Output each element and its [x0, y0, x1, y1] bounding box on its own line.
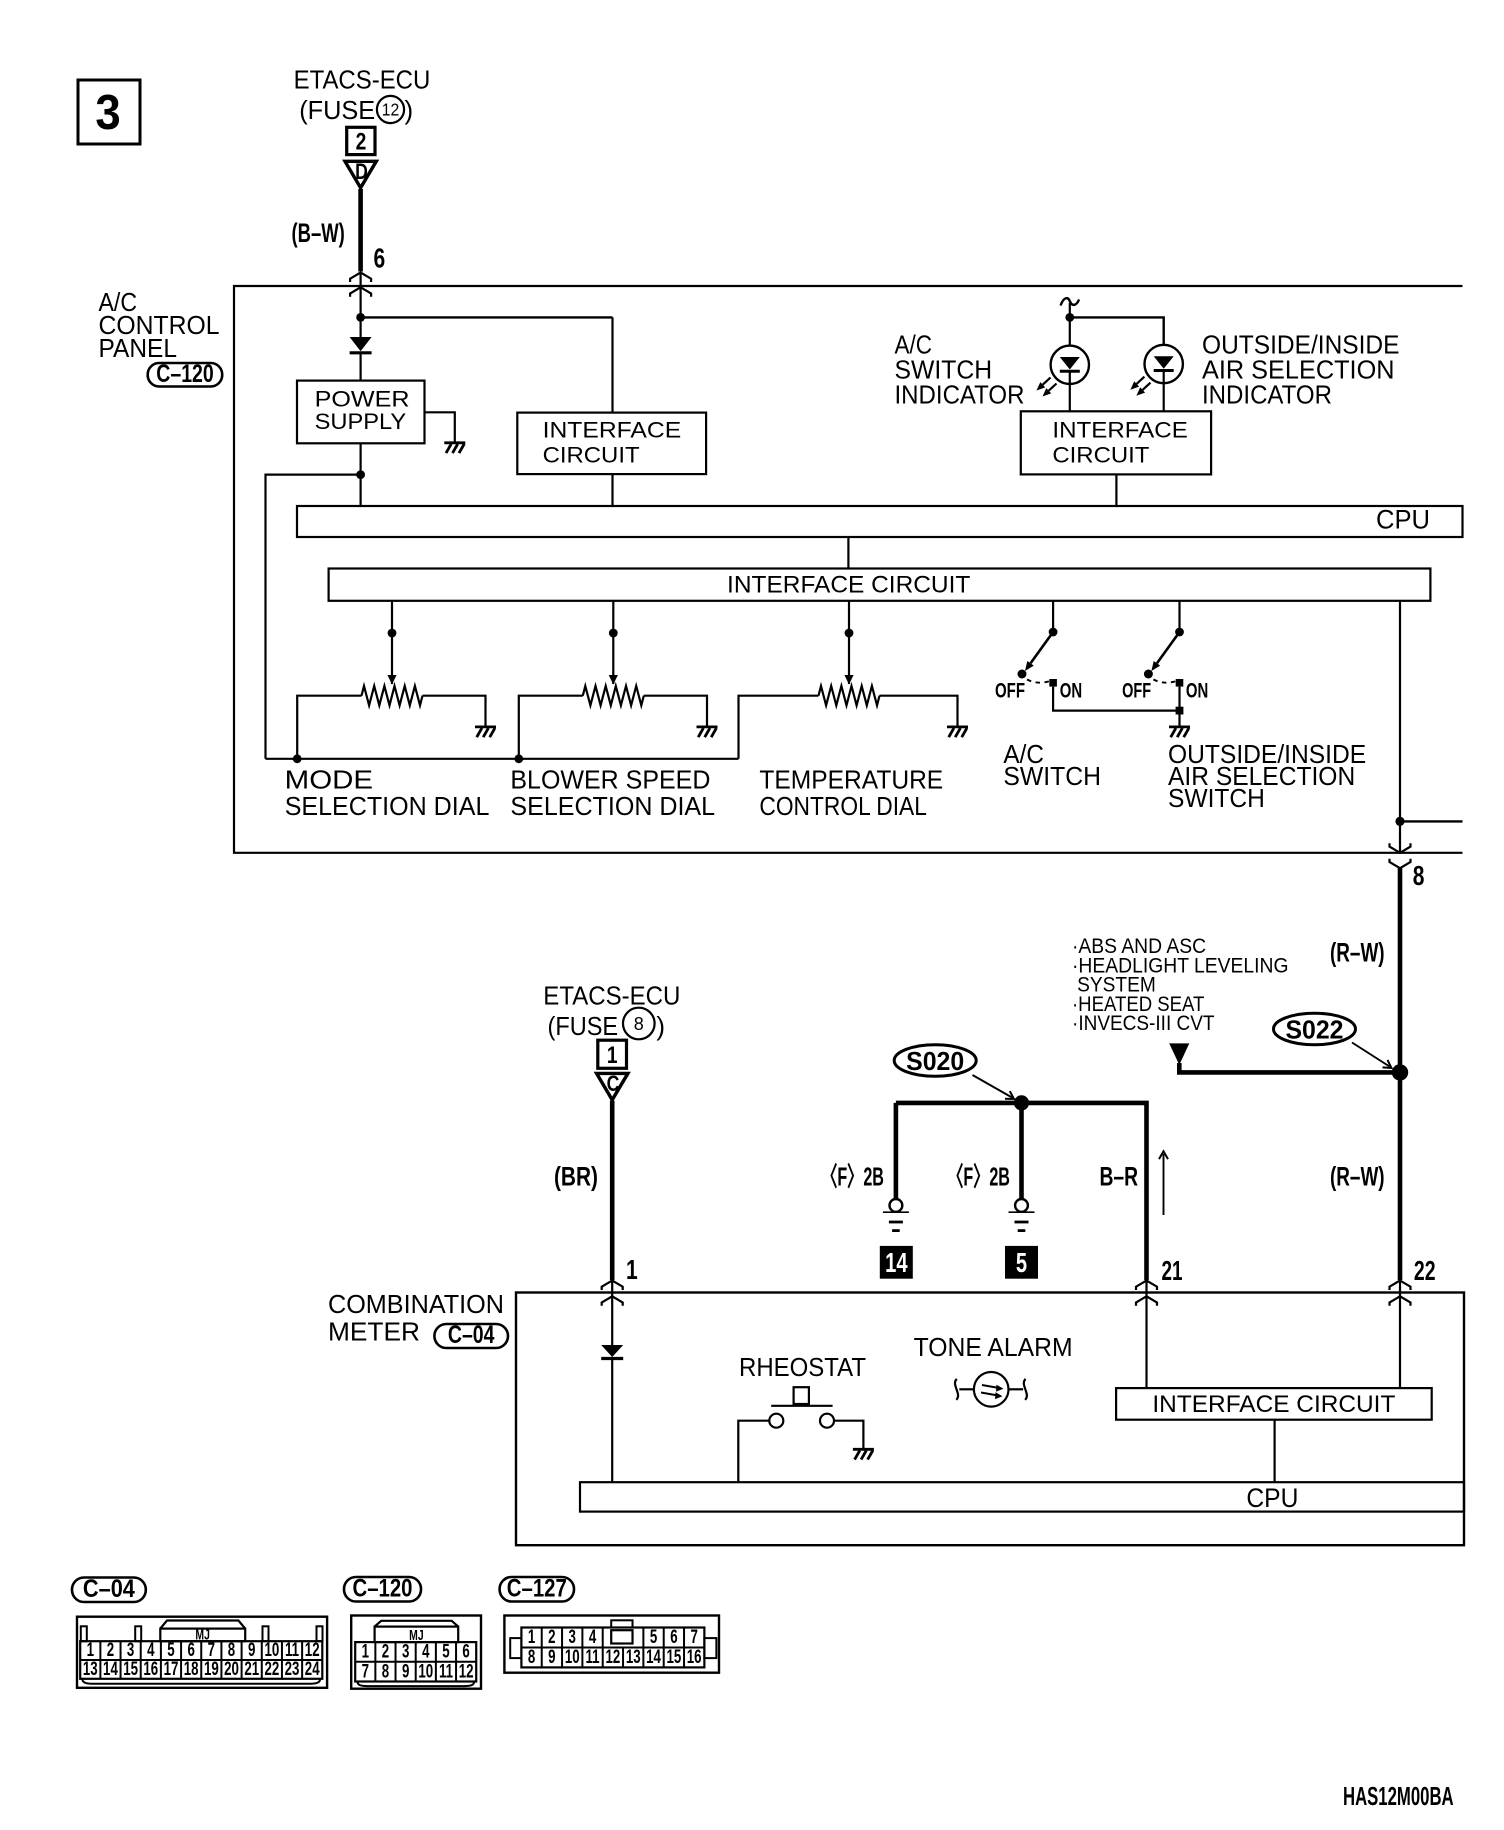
svg-text:INDICATOR: INDICATOR: [1202, 380, 1332, 410]
wire pin 22 into meter: [1399, 1281, 1401, 1389]
ground reference tag 14: [880, 1246, 913, 1279]
svg-text:〈F〉2B: 〈F〉2B: [947, 1162, 1010, 1191]
interface circuit box 3 (meter): [1116, 1388, 1432, 1420]
connector pass-through chevrons pin 1: [602, 1281, 623, 1291]
svg-text:12: 12: [305, 1640, 320, 1661]
svg-text:6: 6: [670, 1627, 677, 1648]
svg-text:CIRCUIT: CIRCUIT: [543, 443, 640, 468]
switch 2 dashed throw arc: [1153, 680, 1176, 683]
wire diode to power supply: [360, 353, 362, 381]
svg-text:10: 10: [418, 1661, 433, 1682]
wire rheostat right to ground: [834, 1421, 863, 1449]
right lead dial 3: [880, 696, 958, 727]
node: switch 1 pivot: [1049, 628, 1058, 637]
wiper arrowhead dial 2: [609, 675, 618, 685]
label A/C SWITCH: [1003, 739, 1101, 791]
label MODE SELECTION DIAL: [285, 765, 490, 821]
wire power supply to CPU: [360, 443, 362, 506]
node: splice S022: [1392, 1064, 1408, 1080]
node: junction dial 3: [845, 629, 854, 638]
svg-text:16: 16: [143, 1659, 158, 1680]
svg-text:20: 20: [224, 1659, 239, 1680]
svg-text:8: 8: [1413, 861, 1425, 892]
svg-text:1: 1: [362, 1641, 369, 1662]
svg-text:9: 9: [248, 1640, 255, 1661]
svg-text:7: 7: [362, 1661, 369, 1682]
svg-text:14: 14: [103, 1659, 118, 1680]
label OUTSIDE/INSIDE AIR SELECTION SWITCH: [1168, 739, 1366, 813]
potentiometer resistor dial 2: [583, 686, 644, 705]
connector pass-through chevrons pin 22: [1390, 1281, 1411, 1291]
svg-text:2: 2: [356, 127, 367, 155]
svg-text:INTERFACE: INTERFACE: [1052, 417, 1187, 442]
node: switch 1 OFF terminal: [1018, 670, 1027, 679]
svg-text:8: 8: [528, 1647, 535, 1668]
svg-text:CIRCUIT: CIRCUIT: [1052, 443, 1149, 468]
wiper feed wire dial 2: [612, 601, 614, 684]
power supply box: [297, 381, 425, 444]
tone alarm symbol: [955, 1372, 1027, 1407]
switch 2 feed wire: [1178, 601, 1180, 632]
svg-text:24: 24: [305, 1659, 320, 1680]
svg-text:4: 4: [422, 1641, 430, 1662]
svg-text:(R–W): (R–W): [1330, 1161, 1385, 1191]
svg-text:11: 11: [586, 1647, 600, 1668]
label A/C SWITCH INDICATOR: [895, 330, 1025, 410]
svg-text:INTERFACE: INTERFACE: [543, 417, 682, 442]
node: switch ground junction: [1176, 707, 1184, 715]
svg-text:7: 7: [690, 1627, 697, 1648]
interface circuit box 2 (indicators): [1021, 411, 1211, 474]
svg-text:4: 4: [589, 1627, 597, 1648]
LED 1 (A/C switch indicator): [1037, 346, 1090, 397]
label OUTSIDE/INSIDE AIR SELECTION INDICATOR: [1202, 330, 1400, 410]
ground (branch 2): [1015, 1199, 1028, 1212]
connector terminal 1 (fuse 8): [598, 1040, 627, 1068]
wire power supply to ground: [425, 412, 455, 442]
node: switch 2 ON terminal: [1176, 679, 1184, 687]
leader arrow S020: [973, 1075, 1013, 1098]
interface circuit bar: [329, 569, 1431, 601]
wire interface 1 to CPU: [611, 474, 613, 506]
svg-text:16: 16: [687, 1647, 702, 1668]
wiper feed wire dial 1: [391, 601, 393, 684]
svg-text:METER: METER: [328, 1317, 420, 1347]
svg-text:15: 15: [667, 1647, 682, 1668]
svg-text:5: 5: [167, 1640, 174, 1661]
svg-text:13: 13: [626, 1647, 641, 1668]
node: splice S020: [1014, 1095, 1029, 1110]
svg-text:SELECTION DIAL: SELECTION DIAL: [285, 791, 490, 821]
svg-text:12: 12: [606, 1647, 621, 1668]
junction triangle C: [597, 1073, 628, 1100]
wire ground branch 1: [894, 1103, 899, 1199]
svg-text:SWITCH: SWITCH: [1168, 783, 1265, 813]
svg-text:6: 6: [187, 1640, 194, 1661]
wire (B-W) from fuse 12, pin 6: [358, 189, 363, 272]
svg-text:CPU: CPU: [1376, 505, 1430, 535]
wire rheostat left to CPU: [738, 1421, 769, 1483]
svg-text:8: 8: [228, 1640, 235, 1661]
potentiometer resistor dial 1: [362, 686, 423, 705]
svg-text:〈F〉2B: 〈F〉2B: [821, 1162, 884, 1191]
wire S020 bus: [896, 1103, 1147, 1280]
svg-text:8: 8: [634, 1014, 644, 1034]
svg-text:6: 6: [374, 244, 386, 275]
ground (switches): [1169, 726, 1190, 729]
svg-text:10: 10: [565, 1647, 580, 1668]
svg-text:C–04: C–04: [83, 1574, 136, 1602]
svg-text:21: 21: [244, 1659, 259, 1680]
ground (power supply): [444, 441, 465, 444]
wire interface 2 to CPU: [1115, 474, 1117, 506]
connector C-04 drawing: [77, 1617, 327, 1688]
connector tag C-127 (bottom): [500, 1577, 574, 1602]
svg-text:S022: S022: [1285, 1015, 1343, 1044]
svg-text:(B–W): (B–W): [291, 218, 344, 248]
label BLOWER SPEED SELECTION DIAL: [510, 765, 715, 821]
connector tag C-120: [148, 363, 223, 387]
connector terminal 2 (fuse 12): [347, 127, 375, 154]
wiper feed wire dial 3: [848, 601, 850, 684]
wire diode 2 to CPU: [611, 1359, 613, 1483]
svg-text:HAS12M00BA: HAS12M00BA: [1343, 1781, 1454, 1810]
svg-text:1: 1: [626, 1255, 638, 1286]
label COMBINATION METER: [328, 1289, 504, 1347]
node: junction below pin 6: [356, 313, 365, 322]
svg-text:22: 22: [1414, 1256, 1436, 1287]
junction triangle D: [345, 161, 376, 188]
svg-text:11: 11: [439, 1661, 453, 1682]
svg-text:): ): [656, 1011, 665, 1041]
dial supply bus: [266, 758, 739, 760]
node: bus junction dial 2: [514, 754, 523, 763]
svg-text:3: 3: [95, 86, 120, 141]
svg-text:INTERFACE CIRCUIT: INTERFACE CIRCUIT: [1152, 1391, 1395, 1418]
ground reference tag 5: [1005, 1246, 1038, 1279]
node: switch 1 ON terminal: [1049, 679, 1057, 687]
svg-text:3: 3: [127, 1640, 134, 1661]
svg-text:OFF: OFF: [1122, 678, 1151, 703]
left lead dial 1: [297, 696, 361, 759]
splice label S022: [1274, 1013, 1356, 1045]
svg-text:1: 1: [87, 1640, 94, 1661]
svg-text:SELECTION DIAL: SELECTION DIAL: [510, 791, 715, 821]
svg-text:2: 2: [107, 1640, 114, 1661]
svg-text:1: 1: [528, 1627, 535, 1648]
node: junction dial 2: [609, 629, 618, 638]
combination meter enclosure box C-04: [516, 1293, 1464, 1546]
wire ground branch 2: [1019, 1103, 1024, 1199]
wire pin6 into panel: [360, 273, 362, 338]
svg-text:10: 10: [264, 1640, 279, 1661]
svg-text:17: 17: [164, 1659, 179, 1680]
svg-text:12: 12: [382, 100, 400, 120]
svg-text:19: 19: [204, 1659, 219, 1680]
wire LED1 to interface 2: [1069, 384, 1071, 411]
wire other systems to S022 junction: [1179, 1063, 1400, 1072]
right lead dial 2: [644, 696, 707, 727]
svg-text:(FUSE: (FUSE: [299, 95, 375, 125]
svg-text:POWER: POWER: [315, 387, 410, 412]
svg-text:): ): [405, 95, 414, 125]
ground (branch 1): [890, 1199, 903, 1212]
wire CPU to interface bar: [847, 537, 849, 569]
svg-text:COMBINATION: COMBINATION: [328, 1289, 504, 1319]
svg-text:CPU: CPU: [1246, 1483, 1298, 1513]
right lead dial 1: [423, 696, 486, 727]
ground (rheostat): [853, 1448, 874, 1451]
svg-text:8: 8: [382, 1661, 389, 1682]
potentiometer resistor dial 3: [819, 686, 880, 705]
wire (R-W) to pin 22: [1398, 1072, 1403, 1280]
node: LED feed junction: [1065, 313, 1074, 322]
svg-text:23: 23: [285, 1659, 300, 1680]
switch 1 dashed throw arc: [1027, 680, 1050, 683]
wire interface 3 to CPU: [1273, 1420, 1275, 1483]
svg-text:14: 14: [646, 1647, 661, 1668]
label A/C CONTROL PANEL: [99, 287, 220, 363]
svg-text:S020: S020: [906, 1047, 964, 1076]
connector C-120 drawing: [351, 1616, 481, 1689]
diode D1 (panel feed): [350, 337, 372, 351]
svg-text:CONTROL DIAL: CONTROL DIAL: [759, 791, 927, 821]
svg-text:12: 12: [459, 1661, 474, 1682]
svg-text:ETACS-ECU: ETACS-ECU: [543, 981, 680, 1011]
wire pin 1 inside meter: [611, 1281, 613, 1346]
diode D2 (combination meter): [601, 1345, 623, 1357]
wiper arrowhead dial 1: [387, 675, 396, 685]
wire to LED 2: [1070, 317, 1164, 346]
svg-text:21: 21: [1161, 1256, 1182, 1287]
A/C control panel enclosure box C-120: [234, 286, 1463, 853]
ground dial 2: [697, 726, 718, 729]
switch 1 blade: [1031, 632, 1054, 663]
svg-text:SUPPLY: SUPPLY: [315, 409, 407, 434]
svg-text:9: 9: [548, 1647, 555, 1668]
ground dial 1: [475, 726, 496, 729]
svg-text:RHEOSTAT: RHEOSTAT: [739, 1352, 866, 1382]
node: switch 2 OFF terminal: [1144, 670, 1153, 679]
svg-text:18: 18: [184, 1659, 199, 1680]
left lead dial 2: [519, 696, 583, 759]
svg-text:3: 3: [569, 1627, 576, 1648]
svg-text:C–04: C–04: [448, 1321, 495, 1349]
switch 2 blade: [1157, 632, 1180, 663]
svg-text:ON: ON: [1060, 678, 1082, 703]
wire switch 2 output to ground: [1178, 687, 1180, 727]
svg-text:(BR): (BR): [554, 1161, 598, 1191]
label TEMPERATURE CONTROL DIAL: [759, 765, 943, 821]
svg-text:D: D: [355, 160, 368, 184]
wire LED2 to interface 2: [1163, 383, 1165, 411]
interface circuit box 1: [517, 413, 706, 475]
svg-text:15: 15: [123, 1659, 138, 1680]
wiper arrowhead dial 3: [844, 675, 853, 685]
left lead dial 3: [739, 696, 819, 759]
wire pin 21 into meter: [1145, 1281, 1147, 1389]
svg-text:ON: ON: [1186, 678, 1208, 703]
svg-text:5: 5: [442, 1641, 449, 1662]
wire interface bar to pin 8: [1399, 601, 1401, 853]
wire junction to panel edge: [1400, 820, 1463, 822]
node: junction dial 1: [388, 629, 397, 638]
page number box 3: [78, 80, 140, 144]
node: bus junction dial 1: [293, 754, 302, 763]
flow direction arrow: [1163, 1154, 1165, 1215]
LED 2 (outside/inside indicator): [1130, 345, 1183, 396]
connector pass-through chevrons pin 8: [1390, 843, 1411, 853]
connector tag C-04 (bottom): [72, 1578, 146, 1603]
wire switch 1 output: [1053, 687, 1179, 711]
svg-text:OFF: OFF: [995, 678, 1025, 703]
svg-text:SWITCH: SWITCH: [1003, 761, 1101, 791]
node: junction power rail: [356, 470, 365, 479]
svg-text:11: 11: [285, 1640, 299, 1661]
CPU bar (combination meter): [580, 1482, 1464, 1511]
svg-text:(R–W): (R–W): [1330, 937, 1385, 967]
svg-text:14: 14: [885, 1248, 908, 1279]
wire (R-W) pin 8 down: [1398, 868, 1403, 1072]
connector tag C-04: [434, 1324, 508, 1348]
feed arrow from other systems: [1169, 1043, 1189, 1065]
CPU bar (A/C panel): [297, 506, 1463, 537]
svg-text:1: 1: [607, 1041, 618, 1069]
svg-text:B–R: B–R: [1099, 1161, 1138, 1191]
svg-text:(FUSE: (FUSE: [548, 1011, 619, 1041]
svg-text:·INVECS-III CVT: ·INVECS-III CVT: [1072, 1012, 1215, 1035]
svg-text:INTERFACE CIRCUIT: INTERFACE CIRCUIT: [727, 571, 971, 598]
svg-text:22: 22: [264, 1659, 279, 1680]
svg-text:5: 5: [1016, 1248, 1027, 1279]
connector tag C-120 (bottom): [344, 1577, 421, 1602]
svg-text:6: 6: [462, 1641, 469, 1662]
svg-text:C: C: [607, 1072, 620, 1096]
svg-text:C–127: C–127: [507, 1574, 567, 1602]
connector C-127 drawing: [504, 1616, 719, 1673]
splice label S020: [894, 1045, 976, 1077]
svg-text:7: 7: [208, 1640, 215, 1661]
wire (BR) from fuse 8, pin 1: [610, 1101, 615, 1280]
svg-text:9: 9: [402, 1661, 409, 1682]
svg-text:3: 3: [402, 1641, 409, 1662]
svg-text:4: 4: [147, 1640, 155, 1661]
svg-text:5: 5: [650, 1627, 657, 1648]
wire left rail to dial bus: [266, 475, 361, 759]
svg-text:TONE ALARM: TONE ALARM: [914, 1332, 1073, 1362]
leader arrow S022: [1352, 1043, 1390, 1067]
node: switch 2 pivot: [1175, 628, 1184, 637]
svg-text:INDICATOR: INDICATOR: [895, 380, 1025, 410]
rheostat symbol: [769, 1387, 834, 1428]
wire LED feed: [1069, 303, 1071, 346]
label other systems list: [1072, 935, 1289, 1035]
svg-text:ETACS-ECU: ETACS-ECU: [294, 65, 431, 95]
connector pass-through chevrons pin 21: [1136, 1281, 1157, 1291]
svg-text:13: 13: [83, 1659, 98, 1680]
svg-text:C–120: C–120: [156, 359, 213, 387]
switch 1 feed wire: [1052, 601, 1054, 632]
svg-text:2: 2: [382, 1641, 389, 1662]
break squiggle above LED feed: [1061, 298, 1080, 305]
svg-text:C–120: C–120: [353, 1574, 413, 1602]
ground dial 3: [947, 726, 968, 729]
wire from junction to interface circuit 1: [361, 316, 613, 318]
node: junction pin 8: [1395, 817, 1404, 826]
connector pass-through chevrons pin 6: [350, 273, 371, 283]
svg-text:2: 2: [548, 1627, 555, 1648]
